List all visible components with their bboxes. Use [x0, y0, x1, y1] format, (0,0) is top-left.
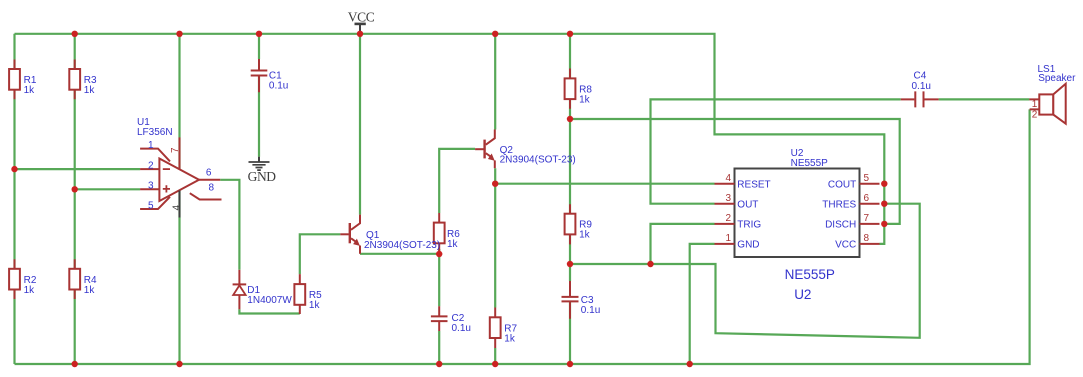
svg-text:8: 8	[864, 233, 870, 244]
svg-text:OUT: OUT	[737, 199, 758, 210]
svg-text:5: 5	[148, 201, 154, 212]
svg-text:2: 2	[1032, 109, 1038, 120]
svg-text:C4: C4	[914, 71, 927, 82]
svg-text:VCC: VCC	[835, 240, 856, 251]
svg-text:COUT: COUT	[828, 179, 856, 190]
svg-text:TRIG: TRIG	[737, 220, 761, 231]
svg-text:1N4007W: 1N4007W	[247, 295, 292, 306]
svg-text:NE555P: NE555P	[791, 158, 829, 169]
svg-text:2N3904(SOT-23): 2N3904(SOT-23)	[500, 154, 576, 165]
svg-text:4: 4	[172, 205, 183, 211]
svg-text:1k: 1k	[579, 230, 591, 241]
svg-text:1k: 1k	[309, 300, 321, 311]
svg-text:7: 7	[170, 147, 181, 153]
svg-text:3: 3	[725, 193, 731, 204]
svg-text:1k: 1k	[24, 285, 36, 296]
svg-text:1: 1	[725, 233, 731, 244]
svg-text:2: 2	[148, 160, 154, 171]
svg-text:THRES: THRES	[822, 199, 856, 210]
svg-text:0.1u: 0.1u	[269, 81, 288, 92]
svg-text:1k: 1k	[24, 85, 36, 96]
svg-text:1: 1	[148, 140, 154, 151]
svg-text:VCC: VCC	[348, 10, 375, 25]
svg-text:1k: 1k	[447, 239, 459, 250]
svg-text:1: 1	[1032, 99, 1038, 110]
svg-text:6: 6	[864, 193, 870, 204]
svg-text:0.1u: 0.1u	[452, 323, 471, 334]
svg-text:2: 2	[725, 213, 731, 224]
svg-text:U2: U2	[794, 287, 811, 302]
svg-text:GND: GND	[248, 169, 277, 184]
svg-text:0.1u: 0.1u	[912, 81, 931, 92]
svg-text:7: 7	[864, 213, 870, 224]
svg-text:RESET: RESET	[737, 179, 770, 190]
svg-text:Speaker: Speaker	[1038, 73, 1076, 84]
svg-text:DISCH: DISCH	[825, 220, 856, 231]
svg-text:8: 8	[209, 183, 215, 194]
svg-text:0.1u: 0.1u	[581, 305, 600, 316]
svg-text:1k: 1k	[579, 94, 591, 105]
svg-text:3: 3	[148, 181, 154, 192]
svg-text:5: 5	[864, 173, 870, 184]
svg-text:6: 6	[206, 168, 212, 179]
svg-text:1k: 1k	[84, 285, 96, 296]
svg-text:4: 4	[725, 173, 731, 184]
svg-text:1k: 1k	[84, 85, 96, 96]
svg-text:2N3904(SOT-23): 2N3904(SOT-23)	[364, 240, 440, 251]
svg-text:NE555P: NE555P	[785, 267, 835, 282]
svg-text:GND: GND	[737, 240, 759, 251]
svg-text:LF356N: LF356N	[137, 127, 173, 138]
svg-text:1k: 1k	[504, 333, 516, 344]
